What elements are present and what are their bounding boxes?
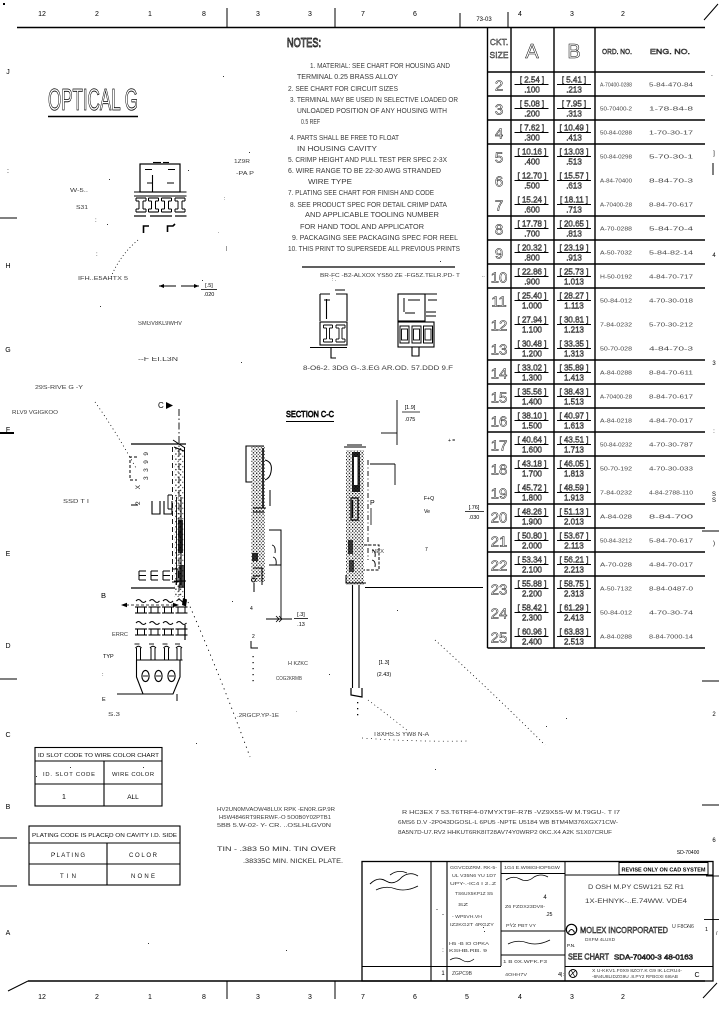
svg-text:+ =: + =: [448, 438, 455, 444]
svg-text:.500: .500: [524, 182, 540, 191]
svg-text:.713: .713: [566, 206, 582, 215]
svg-text:7-84-0232: 7-84-0232: [600, 323, 632, 329]
svg-text:8-84-7000-14: 8-84-7000-14: [649, 635, 693, 641]
svg-text:[ 10.49 ]: [ 10.49 ]: [560, 124, 589, 133]
svg-text:SECTION C-C: SECTION C-C: [286, 409, 334, 419]
svg-text:C: C: [158, 401, 164, 410]
svg-text:.2RGCP.YP-1E: .2RGCP.YP-1E: [237, 713, 279, 719]
svg-text:A-84-70400: A-84-70400: [600, 179, 632, 185]
svg-text:.100: .100: [524, 86, 540, 95]
svg-text:4: 4: [495, 126, 503, 143]
svg-text:1.713: 1.713: [564, 446, 585, 455]
svg-text:- WP5VH.VH: - WP5VH.VH: [452, 914, 482, 919]
svg-text:WIRE TYPE: WIRE TYPE: [308, 179, 352, 186]
svg-text:1 B 0X.WFK.F3: 1 B 0X.WFK.F3: [503, 959, 547, 965]
svg-text:1G4 E.W98GHOP5GW: 1G4 E.W98GHOP5GW: [504, 865, 561, 871]
svg-text:.38335C MIN. NICKEL PLATE.: .38335C MIN. NICKEL PLATE.: [243, 858, 343, 865]
svg-text:17: 17: [491, 438, 508, 455]
svg-text:1.813: 1.813: [564, 470, 585, 479]
svg-text:2: 2: [495, 78, 503, 95]
svg-text:1.900: 1.900: [522, 518, 543, 527]
svg-text:2.200: 2.200: [522, 590, 543, 599]
svg-text:29S-RIVE G -Y: 29S-RIVE G -Y: [35, 385, 83, 391]
svg-text:3: 3: [256, 994, 260, 1001]
svg-text:D: D: [5, 643, 10, 650]
svg-text:[ 35.56 ]: [ 35.56 ]: [518, 388, 547, 397]
svg-text:REVISE ONLY ON CAD SYSTEM: REVISE ONLY ON CAD SYSTEM: [622, 868, 706, 874]
svg-text:[ 5.41 ]: [ 5.41 ]: [562, 76, 586, 85]
svg-text:1.913: 1.913: [564, 494, 585, 503]
svg-text:A: A: [6, 930, 11, 937]
svg-text:[ 2.54 ]: [ 2.54 ]: [520, 76, 544, 85]
svg-text:KSHB.RB. 9: KSHB.RB. 9: [449, 948, 487, 954]
svg-text:24: 24: [491, 606, 508, 623]
svg-text:[ 30.48 ]: [ 30.48 ]: [518, 340, 547, 349]
svg-text:8. SEE PRODUCT SPEC FOR DETAIL: 8. SEE PRODUCT SPEC FOR DETAIL CRIMP DAT…: [290, 202, 447, 209]
svg-text:22: 22: [491, 558, 508, 575]
svg-text:2.000: 2.000: [522, 542, 543, 551]
svg-text:UNLOADED POSITION OF ANY HOUSI: UNLOADED POSITION OF ANY HOUSING WITH: [297, 108, 447, 115]
svg-text:: .: : .: [332, 277, 336, 283]
svg-text:R HC3EX 7 53.T6TRF4-07MYXT9F-R: R HC3EX 7 53.T6TRF4-07MYXT9F-R7B -VZ9X5S…: [402, 810, 620, 816]
svg-text:[1.3]: [1.3]: [379, 660, 390, 666]
svg-text:[ 55.88 ]: [ 55.88 ]: [518, 580, 547, 589]
svg-text:FOR HAND TOOL AND APPLICATOR: FOR HAND TOOL AND APPLICATOR: [300, 224, 424, 231]
svg-text:ALL: ALL: [127, 794, 139, 801]
svg-text:50-70400-2: 50-70400-2: [600, 107, 632, 113]
svg-text:A-84-0288: A-84-0288: [600, 635, 632, 641]
svg-text:IN HOUSING CAVITY: IN HOUSING CAVITY: [297, 146, 377, 153]
svg-text:25: 25: [491, 630, 508, 647]
svg-text:[ 27.94 ]: [ 27.94 ]: [518, 316, 547, 325]
svg-text:50-84-012: 50-84-012: [600, 299, 632, 305]
svg-text:8-84-70-3: 8-84-70-3: [649, 179, 693, 185]
svg-text:2: 2: [95, 994, 99, 1001]
svg-text:1.700: 1.700: [522, 470, 543, 479]
svg-text:B: B: [567, 41, 580, 63]
svg-text:-: -: [436, 907, 438, 913]
svg-text:6: 6: [413, 11, 417, 18]
svg-text:ENG. NO.: ENG. NO.: [650, 47, 690, 56]
svg-text:[.76]: [.76]: [469, 505, 480, 511]
svg-text:50-84-012: 50-84-012: [600, 611, 632, 617]
svg-text:1.513: 1.513: [564, 398, 585, 407]
svg-text:A-70400-28: A-70400-28: [600, 203, 632, 209]
svg-text:.513: .513: [566, 158, 582, 167]
svg-text:[ 20.32 ]: [ 20.32 ]: [518, 244, 547, 253]
svg-text:IZ2KG2T 4RGZY: IZ2KG2T 4RGZY: [450, 922, 494, 927]
svg-text:3: 3: [256, 11, 260, 18]
svg-text:[ 43.51 ]: [ 43.51 ]: [560, 436, 589, 445]
svg-text:H5 -B IO OPKA: H5 -B IO OPKA: [449, 941, 490, 947]
svg-text:D OSH M.PY C5W121 5Z R1: D OSH M.PY C5W121 5Z R1: [588, 884, 684, 891]
svg-text:.25: .25: [546, 912, 553, 918]
svg-text:3: 3: [308, 994, 312, 1001]
svg-text:[ 43.18 ]: [ 43.18 ]: [518, 460, 547, 469]
svg-text:ZGPC9B: ZGPC9B: [452, 971, 473, 977]
svg-text:Ve: Ve: [424, 509, 430, 515]
svg-text:T8XHS.S YW8 N-A: T8XHS.S YW8 N-A: [373, 732, 429, 738]
svg-text:14: 14: [491, 366, 508, 383]
svg-text:SMGV8KL9WHV: SMGV8KL9WHV: [138, 321, 182, 327]
svg-text:[ 17.78 ]: [ 17.78 ]: [518, 220, 547, 229]
svg-text:S.3: S.3: [108, 712, 120, 718]
svg-text:.: .: [218, 229, 219, 235]
svg-text:|: |: [226, 246, 227, 252]
svg-text:-6N4U8LIDZG9U .8.PY2 RFBGXI 6I: -6N4U8LIDZG9U .8.PY2 RFBGXI 6I6AB: [592, 974, 678, 979]
svg-text:A-70400-0288: A-70400-0288: [600, 83, 632, 89]
svg-text:[ 38.10 ]: [ 38.10 ]: [518, 412, 547, 421]
svg-text:J: J: [6, 69, 10, 76]
svg-text:SIZE: SIZE: [490, 50, 509, 60]
svg-text:E: E: [6, 551, 11, 558]
svg-text:[ 30.81 ]: [ 30.81 ]: [560, 316, 589, 325]
svg-text:12: 12: [38, 994, 46, 1001]
svg-text:G: G: [5, 347, 10, 354]
svg-text:U F8CN6: U F8CN6: [672, 924, 694, 930]
svg-text:1. MATERIAL: SEE CHART FOR HOU: 1. MATERIAL: SEE CHART FOR HOUSING AND: [310, 63, 450, 70]
svg-text:50-84-0298: 50-84-0298: [600, 155, 632, 161]
svg-text:[ 7.95 ]: [ 7.95 ]: [562, 100, 586, 109]
svg-text:[ 51.13 ]: [ 51.13 ]: [560, 508, 589, 517]
svg-text:PLATING CODE IS PLACED ON CAVI: PLATING CODE IS PLACED ON CAVITY I.D. SI…: [32, 833, 177, 839]
svg-text:8-84-70-617: 8-84-70-617: [649, 395, 693, 401]
svg-text:.813: .813: [566, 230, 582, 239]
svg-text:--F EI.L3N: --F EI.L3N: [138, 357, 178, 363]
svg-text:B: B: [101, 591, 106, 600]
svg-text:OPTICAL G: OPTICAL G: [48, 82, 138, 117]
svg-text:5-70-30-212: 5-70-30-212: [649, 323, 693, 329]
svg-text:F+Q: F+Q: [424, 496, 434, 502]
svg-text:[ 53.67 ]: [ 53.67 ]: [560, 532, 589, 541]
svg-text:2.100: 2.100: [522, 566, 543, 575]
svg-text:3: 3: [308, 11, 312, 18]
svg-text:1X-EHNYK-..E.74WW. VDE4: 1X-EHNYK-..E.74WW. VDE4: [585, 898, 687, 905]
svg-text:A-70400-28: A-70400-28: [600, 395, 632, 401]
svg-text:TIN - .383 50 MIN. TIN OVER: TIN - .383 50 MIN. TIN OVER: [217, 846, 336, 853]
svg-text:CKT.: CKT.: [490, 37, 508, 47]
svg-text:NOTES:: NOTES:: [287, 35, 321, 50]
svg-text:[ 35.89 ]: [ 35.89 ]: [560, 364, 589, 373]
svg-text:UL V35N6 YU 1D7: UL V35N6 YU 1D7: [452, 873, 496, 878]
svg-text:RLV9 VGIGKOO: RLV9 VGIGKOO: [12, 410, 59, 416]
svg-text:16: 16: [491, 414, 508, 431]
svg-text:8A5N7D-U7.RV2 HHKUT6RK8IT28AV7: 8A5N7D-U7.RV2 HHKUT6RK8IT28AV74Y0WRP2 0K…: [398, 830, 612, 836]
svg-text:9. PACKAGING SEE PACKAGING SPE: 9. PACKAGING SEE PACKAGING SPEC FOR REEL: [292, 235, 458, 242]
svg-text:2.013: 2.013: [564, 518, 585, 527]
svg-text:MOLEX INCORPORATED: MOLEX INCORPORATED: [580, 926, 668, 935]
svg-text:-: -: [442, 912, 444, 918]
svg-text:[ 53.34 ]: [ 53.34 ]: [518, 556, 547, 565]
svg-text:2.300: 2.300: [522, 614, 543, 623]
svg-text:[ 15.57 ]: [ 15.57 ]: [560, 172, 589, 181]
svg-text:2: 2: [621, 11, 625, 18]
svg-text:[ 28.27 ]: [ 28.27 ]: [560, 292, 589, 301]
svg-text:5-84-70-617: 5-84-70-617: [649, 539, 693, 545]
svg-text:[ 50.80 ]: [ 50.80 ]: [518, 532, 547, 541]
svg-text:4: 4: [250, 606, 253, 612]
svg-text:7-84-0232: 7-84-0232: [600, 491, 632, 497]
svg-text:1.300: 1.300: [522, 374, 543, 383]
svg-text:4-84-70-3: 4-84-70-3: [649, 347, 693, 353]
svg-text:50-84-0232: 50-84-0232: [600, 443, 632, 449]
svg-text:6MS6 D.V -2P043DGOSL-L 6PU5 -: 6MS6 D.V -2P043DGOSL-L 6PU5 -NPTE U5184 …: [398, 820, 618, 826]
svg-text:[.3]: [.3]: [297, 612, 305, 618]
svg-text:PYZ PBT VY: PYZ PBT VY: [506, 923, 536, 928]
svg-text:4-84-70-017: 4-84-70-017: [649, 419, 693, 425]
svg-text:2: 2: [252, 634, 255, 640]
svg-text:S: S: [712, 498, 716, 504]
svg-text:1: 1: [148, 994, 152, 1001]
svg-text:4-84-70-717: 4-84-70-717: [649, 275, 693, 281]
svg-text:[ 22.86 ]: [ 22.86 ]: [518, 268, 547, 277]
svg-text:5: 5: [465, 994, 469, 1001]
svg-text:2.113: 2.113: [564, 542, 584, 551]
svg-text:4. PARTS SHALL BE FREE TO FLOA: 4. PARTS SHALL BE FREE TO FLOAT: [290, 135, 400, 142]
svg-text:50-84-0288: 50-84-0288: [600, 131, 632, 137]
svg-text:ORD. NO.: ORD. NO.: [602, 47, 632, 56]
svg-text:.13: .13: [297, 622, 305, 628]
svg-text:20: 20: [491, 510, 508, 527]
svg-text:2.313: 2.313: [564, 590, 585, 599]
svg-text:13: 13: [491, 342, 508, 359]
svg-text:8-O6-2. 3DG G-.3.EG AR.OD. 57.: 8-O6-2. 3DG G-.3.EG AR.OD. 57.DDD 9.F: [303, 365, 453, 372]
svg-text:8-84-0487-0: 8-84-0487-0: [649, 587, 693, 593]
svg-text:1.400: 1.400: [522, 398, 543, 407]
svg-text:PLATING: PLATING: [51, 853, 85, 859]
svg-text:8: 8: [495, 222, 503, 239]
svg-text:DXFM 4LUXD: DXFM 4LUXD: [585, 937, 615, 942]
svg-text:[.5]: [.5]: [205, 283, 213, 289]
svg-text:ERRC: ERRC: [112, 632, 128, 638]
svg-text:5-70-30-1: 5-70-30-1: [649, 155, 693, 161]
svg-text:4|:|: 4|:|: [558, 972, 565, 978]
svg-text:[ 5.08 ]: [ 5.08 ]: [520, 100, 544, 109]
svg-text:(2.43): (2.43): [377, 672, 392, 678]
svg-text:): ): [713, 541, 715, 547]
svg-text:1.213: 1.213: [564, 326, 585, 335]
svg-text:.613: .613: [566, 182, 582, 191]
svg-text:10: 10: [491, 270, 508, 287]
svg-text:[ 48.26 ]: [ 48.26 ]: [518, 508, 547, 517]
svg-text:.300: .300: [524, 134, 540, 143]
svg-text:.030: .030: [469, 515, 480, 521]
svg-text:12: 12: [38, 11, 46, 18]
svg-text:A: A: [525, 41, 539, 63]
svg-text:SD-70400: SD-70400: [677, 850, 700, 856]
svg-text::: :: [7, 168, 9, 175]
svg-text:10. THIS PRINT TO SUPERSEDE AL: 10. THIS PRINT TO SUPERSEDE ALL PREVIOUS…: [288, 246, 460, 253]
svg-text:4-70-30-787: 4-70-30-787: [649, 443, 693, 449]
svg-text:C: C: [694, 972, 699, 979]
svg-text:[1.9]: [1.9]: [405, 405, 416, 411]
svg-text:UPY-.-IC4 I 2..Z: UPY-.-IC4 I 2..Z: [450, 881, 496, 886]
svg-text:[ 46.05 ]: [ 46.05 ]: [560, 460, 589, 469]
svg-text:COLOR: COLOR: [129, 853, 158, 859]
svg-text:1.413: 1.413: [564, 374, 585, 383]
svg-text:.913: .913: [566, 254, 582, 263]
svg-text:8-84-70-617: 8-84-70-617: [649, 203, 693, 209]
svg-text:.213: .213: [566, 86, 582, 95]
svg-text:IFH..E5AHTX 5: IFH..E5AHTX 5: [78, 276, 128, 282]
svg-text:5: 5: [495, 150, 503, 167]
svg-text:4-84-2788-110: 4-84-2788-110: [649, 491, 693, 497]
svg-text:[ 61.29 ]: [ 61.29 ]: [560, 604, 589, 613]
svg-text:3. TERMINAL MAY BE USED IN SEL: 3. TERMINAL MAY BE USED IN SELECTIVE LOA…: [290, 97, 458, 104]
svg-text:1.100: 1.100: [522, 326, 543, 335]
svg-text:2: 2: [621, 994, 625, 1001]
svg-text:7: 7: [361, 994, 365, 1001]
svg-text:.900: .900: [524, 278, 540, 287]
svg-text:1.500: 1.500: [522, 422, 543, 431]
svg-text:4: 4: [518, 994, 522, 1001]
svg-text:[ 60.96 ]: [ 60.96 ]: [518, 628, 547, 637]
svg-text:Z6 FZDX23DV8-: Z6 FZDX23DV8-: [505, 904, 545, 910]
svg-text:[ 38.43 ]: [ 38.43 ]: [560, 388, 589, 397]
svg-text:H KZKC: H KZKC: [288, 661, 308, 667]
svg-text:7: 7: [495, 198, 503, 215]
svg-text:GGVCDZRM. RK-5-: GGVCDZRM. RK-5-: [450, 865, 498, 870]
svg-text:8: 8: [202, 994, 206, 1001]
svg-text:2. SEE CHART FOR CIRCUIT SIZES: 2. SEE CHART FOR CIRCUIT SIZES: [288, 86, 398, 93]
svg-text:4: 4: [518, 11, 522, 18]
svg-text:SSD T I: SSD T I: [63, 499, 90, 505]
svg-text:TERMINAL 0.25 BRASS ALLOY: TERMINAL 0.25 BRASS ALLOY: [297, 74, 398, 81]
svg-text:[ 7.62 ]: [ 7.62 ]: [520, 124, 544, 133]
svg-text:0.5 REF: 0.5 REF: [301, 119, 320, 126]
svg-text:.020: .020: [204, 292, 215, 298]
svg-text:.700: .700: [524, 230, 540, 239]
svg-text:C: C: [5, 732, 10, 739]
svg-text:[ 25.73 ]: [ 25.73 ]: [560, 268, 589, 277]
svg-text:1.000: 1.000: [522, 302, 543, 311]
svg-text:2.413: 2.413: [564, 614, 585, 623]
svg-text:NEX: NEX: [372, 549, 385, 555]
svg-text:[ 58.42 ]: [ 58.42 ]: [518, 604, 547, 613]
svg-text:.800: .800: [524, 254, 540, 263]
svg-text:A-70-0288: A-70-0288: [600, 227, 632, 233]
svg-text:8: 8: [202, 11, 206, 18]
svg-text:6. WIRE RANGE TO BE 22-30 AWG: 6. WIRE RANGE TO BE 22-30 AWG STRANDED: [288, 168, 441, 175]
svg-text:P: P: [370, 500, 375, 507]
svg-text:X U-KKV1.F0X9 8ZO7.K G9 IK.LC: X U-KKV1.F0X9 8ZO7.K G9 IK.LCRU4-: [592, 968, 683, 973]
svg-text:`: `: [711, 76, 713, 82]
svg-text:1.613: 1.613: [564, 422, 585, 431]
svg-text:[ 48.59 ]: [ 48.59 ]: [560, 484, 589, 493]
svg-text:50-70-028: 50-70-028: [600, 347, 632, 353]
svg-text:4-70-30-033: 4-70-30-033: [649, 467, 693, 473]
svg-text:AND APPLICABLE TOOLING NUMBER: AND APPLICABLE TOOLING NUMBER: [305, 212, 439, 219]
svg-text:WIRE COLOR: WIRE COLOR: [112, 772, 154, 778]
svg-text:TYP: TYP: [103, 654, 114, 660]
svg-text:[ 13.03 ]: [ 13.03 ]: [560, 148, 589, 157]
svg-text:[ 33.35 ]: [ 33.35 ]: [560, 340, 589, 349]
svg-text:4-70-30-018: 4-70-30-018: [649, 299, 693, 305]
svg-text:.400: .400: [524, 158, 540, 167]
svg-text:TS6UX5KP1Z S5: TS6UX5KP1Z S5: [455, 891, 493, 896]
svg-text:.200: .200: [524, 110, 540, 119]
svg-text:.313: .313: [566, 110, 582, 119]
svg-text:A-84-028: A-84-028: [600, 515, 632, 521]
svg-text:11: 11: [491, 294, 507, 311]
svg-text:1-78-84-8: 1-78-84-8: [649, 107, 693, 113]
svg-text:73-03: 73-03: [476, 17, 492, 23]
svg-text:2.400: 2.400: [522, 638, 543, 647]
svg-text:1: 1: [705, 927, 708, 933]
svg-text:4-70-30-74: 4-70-30-74: [649, 611, 693, 617]
svg-text:BR-FC -B2-ALXOX YS50 ZE -FG5Z.: BR-FC -B2-ALXOX YS50 ZE -FG5Z.TELR.PD- T: [320, 273, 461, 279]
svg-text:.600: .600: [524, 206, 540, 215]
svg-text:1.200: 1.200: [522, 350, 543, 359]
svg-text:[ 33.02 ]: [ 33.02 ]: [518, 364, 547, 373]
svg-text:-PA P: -PA P: [236, 171, 254, 177]
svg-text:[ 23.19 ]: [ 23.19 ]: [560, 244, 589, 253]
svg-text:SZ: SZ: [458, 902, 468, 907]
svg-text:1.800: 1.800: [522, 494, 543, 503]
svg-text:1.600: 1.600: [522, 446, 543, 455]
svg-text:15: 15: [491, 390, 508, 407]
svg-text:[ 10.16 ]: [ 10.16 ]: [518, 148, 547, 157]
svg-text:21: 21: [491, 534, 508, 551]
svg-text:S31: S31: [76, 205, 88, 211]
svg-text:5-84-82-14: 5-84-82-14: [649, 251, 693, 257]
svg-text:[ 40.64 ]: [ 40.64 ]: [518, 436, 547, 445]
svg-text:HV2UN0MVAOW48LUX RPK -EN0R.GP.: HV2UN0MVAOW48LUX RPK -EN0R.GP.9R: [217, 807, 335, 813]
svg-text:[ 63.83 ]: [ 63.83 ]: [560, 628, 589, 637]
svg-text:[ 25.40 ]: [ 25.40 ]: [518, 292, 547, 301]
svg-text:W-5..: W-5..: [70, 188, 89, 194]
svg-text:1Z9R: 1Z9R: [234, 159, 250, 165]
svg-text:23: 23: [491, 582, 508, 599]
svg-text:.: .: [296, 708, 297, 714]
svg-text:[ 15.24 ]: [ 15.24 ]: [518, 196, 547, 205]
svg-text:[ 40.97 ]: [ 40.97 ]: [560, 412, 589, 421]
svg-text:[ 56.21 ]: [ 56.21 ]: [560, 556, 589, 565]
svg-text:SEE CHART: SEE CHART: [568, 953, 609, 962]
svg-text:50-70-192: 50-70-192: [600, 467, 632, 473]
svg-text:COG2KRMB: COG2KRMB: [276, 676, 302, 682]
svg-text:B: B: [6, 804, 11, 811]
svg-text:5-84-70-4: 5-84-70-4: [649, 227, 693, 233]
svg-text:ID SLOT CODE TO WIRE COLOR CHA: ID SLOT CODE TO WIRE COLOR CHART: [38, 753, 159, 759]
svg-text:[ 18.11 ]: [ 18.11 ]: [560, 196, 588, 205]
svg-text:TIN: TIN: [60, 874, 76, 880]
svg-text:H5W4846RT9RERWF.-O 5O0B0Y02PTB: H5W4846RT9RERWF.-O 5O0B0Y02PTB1: [219, 815, 331, 821]
svg-text:A-70-028: A-70-028: [600, 563, 632, 569]
svg-text:8-84-70-611: 8-84-70-611: [649, 371, 693, 377]
svg-text:ID. SLOT CODE: ID. SLOT CODE: [43, 772, 95, 778]
svg-text:3: 3: [570, 11, 574, 18]
svg-text:A-50-7032: A-50-7032: [600, 251, 632, 257]
svg-text:7: 7: [361, 11, 365, 18]
svg-text:1.013: 1.013: [564, 278, 585, 287]
svg-text:6: 6: [413, 994, 417, 1001]
svg-text:7. PLATING SEE CHART FOR FINIS: 7. PLATING SEE CHART FOR FINISH AND CODE: [288, 190, 434, 197]
svg-text:18: 18: [491, 462, 508, 479]
svg-text:A-84-0288: A-84-0288: [600, 371, 632, 377]
svg-text:E: E: [102, 697, 106, 703]
svg-text:4-84-70-017: 4-84-70-017: [649, 563, 693, 569]
svg-text::: :: [224, 196, 225, 202]
svg-text:SDA-70400-3 48-0163: SDA-70400-3 48-0163: [614, 955, 693, 962]
svg-text:5BB 5.W-02- Y- CR. ..OSLHLGV0: 5BB 5.W-02- Y- CR. ..OSLHLGV0N: [217, 823, 331, 829]
svg-text:19: 19: [491, 486, 508, 503]
svg-text:..: ..: [482, 273, 485, 279]
svg-text:3: 3: [570, 994, 574, 1001]
svg-text:3: 3: [495, 102, 503, 119]
svg-text:2.513: 2.513: [564, 638, 585, 647]
svg-text:1.113: 1.113: [564, 302, 584, 311]
